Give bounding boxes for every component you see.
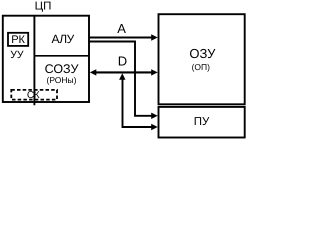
svg-text:СК: СК	[27, 90, 40, 101]
svg-text:D: D	[118, 54, 127, 69]
svg-text:ПУ: ПУ	[194, 116, 210, 128]
svg-text:(РОНы): (РОНы)	[46, 75, 76, 85]
svg-text:(ОП): (ОП)	[192, 62, 211, 72]
svg-text:ОЗУ: ОЗУ	[189, 46, 216, 61]
svg-text:ЦП: ЦП	[35, 1, 52, 13]
svg-text:A: A	[117, 21, 126, 36]
svg-text:УУ: УУ	[10, 49, 24, 61]
svg-text:АЛУ: АЛУ	[51, 32, 74, 46]
svg-text:РК: РК	[11, 34, 25, 46]
